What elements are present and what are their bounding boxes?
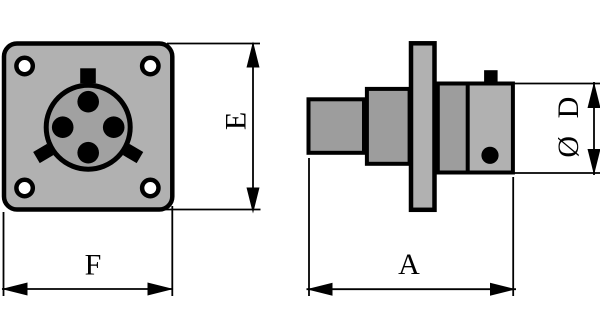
mounting hole top-right	[142, 58, 158, 74]
pin top	[77, 91, 99, 113]
side view shell rear section (darker)	[438, 84, 468, 173]
pin left	[52, 116, 74, 138]
pin bottom	[77, 142, 99, 164]
svg-text:E: E	[220, 112, 253, 130]
dimension D line with arrows	[588, 82, 600, 175]
side view front shell body	[438, 84, 513, 173]
side view middle body	[367, 89, 410, 164]
dimension E extension line top	[167, 43, 260, 45]
dimension D label letter (rotated)	[552, 97, 585, 119]
svg-text:A: A	[398, 248, 420, 281]
side tab lower-left	[33, 144, 53, 163]
key tab top	[80, 68, 96, 83]
mounting hole bottom-left	[16, 180, 32, 196]
side view mounting flange plate	[411, 43, 435, 210]
side view rear spigot	[309, 99, 365, 153]
dimension F label	[85, 249, 102, 282]
dimension F line with arrows	[2, 283, 174, 296]
dimension D extension line bottom	[513, 172, 600, 174]
dimension F extension line right	[171, 206, 173, 296]
pin right	[103, 116, 125, 138]
mounting hole bottom-right	[142, 180, 158, 196]
dimension E line with arrows	[247, 42, 260, 214]
dimension A label	[398, 248, 420, 281]
dimension A extension line right	[512, 177, 514, 296]
dimension D extension line top	[513, 83, 600, 85]
dimension F extension line left	[3, 212, 5, 296]
svg-text:F: F	[85, 249, 102, 282]
connector barrel circle	[46, 85, 130, 169]
side view key tab on top	[484, 70, 498, 83]
dimension E extension line bottom	[160, 209, 261, 211]
side tab lower-right	[123, 144, 143, 163]
dimension E label (rotated)	[220, 112, 253, 130]
front view flange plate	[4, 44, 172, 210]
svg-text:D: D	[552, 97, 585, 119]
dimension A extension line left	[308, 158, 310, 296]
side view locating dot	[481, 147, 498, 164]
svg-text:Ø: Ø	[552, 136, 585, 158]
mounting hole top-left	[16, 58, 32, 74]
dimension A line with arrows	[307, 283, 517, 296]
dimension D label diameter symbol (rotated)	[552, 136, 585, 158]
